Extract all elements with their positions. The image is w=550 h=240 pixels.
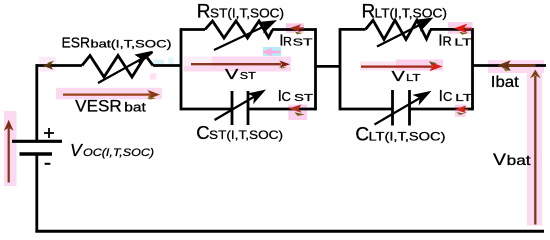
pink highlight ICST arrow xyxy=(288,105,307,120)
capacitor CLT plate right xyxy=(408,90,411,126)
arrow IRST xyxy=(289,24,304,34)
svg-text:OC(I,T,SOC): OC(I,T,SOC) xyxy=(83,147,154,159)
svg-text:ST(I,T,SOC): ST(I,T,SOC) xyxy=(210,6,284,20)
box1 bottom-right wire xyxy=(248,108,316,111)
svg-text:R: R xyxy=(283,35,292,49)
svg-text:R: R xyxy=(362,2,376,23)
resistor RST zigzag xyxy=(205,21,273,38)
svg-text:ST: ST xyxy=(293,38,313,49)
pink highlight VST band xyxy=(184,57,291,72)
arrow ICST xyxy=(288,104,305,116)
capacitor CLT arrow xyxy=(375,93,429,125)
pink highlight VESRbat band xyxy=(56,88,162,100)
svg-text:LT(I,T,SOC): LT(I,T,SOC) xyxy=(375,7,448,21)
svg-text:Ibat: Ibat xyxy=(491,74,520,91)
svg-text:C: C xyxy=(196,122,209,143)
capacitor CLT plate left xyxy=(391,90,394,126)
arrow battery left up xyxy=(4,120,14,183)
svg-text:V: V xyxy=(225,67,239,83)
wire left rail upper xyxy=(35,64,38,141)
cyan highlight pink arrow xyxy=(263,47,281,56)
pink highlight top-left arrow xyxy=(39,57,56,72)
svg-text:C: C xyxy=(355,125,369,146)
svg-text:V: V xyxy=(493,151,506,169)
capacitor CST plate left xyxy=(231,91,234,125)
capacitor CST arrow xyxy=(215,91,264,120)
svg-text:ESR: ESR xyxy=(62,34,91,51)
pink highlight battery arrow band xyxy=(4,111,17,186)
arrow ICLT xyxy=(455,105,468,115)
box2 left edge xyxy=(339,28,342,110)
svg-text:bat(I,T,SOC): bat(I,T,SOC) xyxy=(91,38,172,50)
svg-text:LT: LT xyxy=(454,38,471,49)
arrow VST xyxy=(191,60,290,68)
cyan highlight resistor end xyxy=(153,60,164,66)
svg-text:R: R xyxy=(197,1,211,22)
box1 top-left wire xyxy=(181,28,205,31)
battery minus sign xyxy=(45,163,51,165)
box2 top-left wire xyxy=(340,28,366,31)
pink highlight Vbat band xyxy=(527,69,542,226)
resistor ESRbat arrow xyxy=(98,52,153,83)
svg-text:VESR: VESR xyxy=(75,97,122,115)
pink highlight Ibat band xyxy=(488,60,544,73)
pink smudge resistor end xyxy=(150,73,157,80)
battery plus sign xyxy=(44,128,54,138)
resistor RLT arrow xyxy=(377,19,431,47)
box1 left edge xyxy=(180,28,183,110)
svg-text:ST: ST xyxy=(294,93,313,104)
arrow top-left current xyxy=(43,61,55,70)
pink highlight ICLT arrow xyxy=(455,105,466,117)
wire box2 to right terminal xyxy=(473,64,547,67)
battery plate long xyxy=(12,140,62,143)
box2 right edge xyxy=(471,28,474,110)
arrow IRLT xyxy=(454,24,472,35)
pink arrow left xyxy=(262,48,281,56)
svg-text:LT(I,T,SOC): LT(I,T,SOC) xyxy=(369,130,446,144)
box1 top-right wire xyxy=(272,28,316,31)
arrow Ibat xyxy=(497,60,535,71)
pink highlight IRLT arrow xyxy=(448,22,473,34)
wire left rail lower xyxy=(35,154,38,232)
pink highlight VLT arrowhead xyxy=(396,60,443,71)
arrow VLT xyxy=(361,61,443,71)
resistor ESRbat zigzag xyxy=(82,56,153,78)
box2 top-right wire xyxy=(430,28,473,31)
svg-text:ST(I,T,SOC): ST(I,T,SOC) xyxy=(209,128,283,142)
wire bottom rail xyxy=(35,230,544,233)
box1 bottom-left wire xyxy=(181,108,232,111)
box1 right edge xyxy=(314,28,317,110)
cyan smudge near box1 edge xyxy=(168,58,174,66)
wire top-left horizontal xyxy=(36,64,83,67)
resistor RLT zigzag xyxy=(366,20,431,39)
capacitor CST plate right xyxy=(247,91,250,125)
box2 bottom-right wire xyxy=(410,108,473,111)
svg-text:bat: bat xyxy=(124,100,146,114)
svg-text:ST: ST xyxy=(240,71,256,82)
svg-text:C: C xyxy=(282,89,291,104)
wire between boxes xyxy=(316,65,341,68)
svg-text:LT: LT xyxy=(406,73,421,84)
svg-text:C: C xyxy=(443,89,452,104)
box2 bottom-left wire xyxy=(340,108,393,111)
wire resistor to box1 xyxy=(153,64,182,67)
pink highlight IRST arrow xyxy=(286,23,304,32)
arrow VESRbat xyxy=(63,90,160,100)
svg-text:V: V xyxy=(70,140,84,160)
svg-text:LT: LT xyxy=(455,93,472,104)
svg-text:bat: bat xyxy=(507,152,531,168)
arrow Vbat up xyxy=(530,70,541,225)
resistor RST arrow xyxy=(214,22,274,51)
svg-text:R: R xyxy=(443,35,452,49)
battery plate short xyxy=(20,152,53,155)
svg-text:V: V xyxy=(392,69,406,85)
